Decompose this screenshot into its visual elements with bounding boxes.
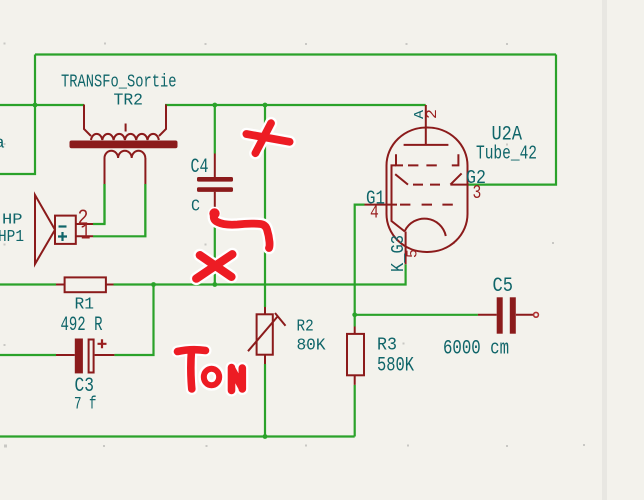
svg-text:1: 1 — [81, 220, 91, 246]
svg-text:C5: C5 — [493, 275, 514, 298]
wire C3 left feed — [0, 354, 56, 356]
svg-text:R2: R2 — [297, 318, 314, 337]
tube U2A grid G1 row and pin lead — [365, 204, 453, 206]
tube U2A G3-cathode internal tie — [392, 165, 405, 231]
resistor R1 leads — [56, 284, 114, 286]
svg-text:TR2: TR2 — [114, 92, 144, 111]
speaker HP1 plus mark — [58, 232, 67, 241]
junction node R1 / C3 riser — [151, 282, 156, 287]
svg-text:492 R: 492 R — [61, 314, 103, 337]
svg-text:6000 cm: 6000 cm — [443, 338, 509, 361]
annotation white halos — [178, 123, 290, 390]
wire transformer secondary right leg — [144, 184, 146, 236]
wire speaker pin2 to secondary left leg — [93, 184, 105, 224]
wire C5 feed y315 — [355, 314, 478, 316]
transformer TR2 secondary winding — [105, 151, 146, 158]
svg-text:C: C — [191, 197, 200, 216]
svg-text:3: 3 — [473, 182, 482, 204]
wire HT top rail — [35, 53, 556, 55]
wire G1 to R3 — [355, 205, 365, 327]
speaker HP1 pin 1 lead — [76, 235, 93, 237]
svg-text:R1: R1 — [75, 296, 95, 315]
potentiometer R2 leads — [264, 307, 266, 364]
annotation handwritten TON — [178, 350, 243, 391]
svg-text:7 f: 7 f — [74, 394, 97, 414]
svg-text:2: 2 — [424, 109, 441, 119]
capacitor C3 polarity plus — [98, 339, 107, 348]
wire C3 right riser — [114, 285, 153, 356]
wire R3 bottom drop — [354, 385, 356, 437]
wire G2 feedback loop — [468, 55, 557, 185]
tube U2A grid G2 row and pin lead — [395, 173, 467, 184]
transformer TR2 primary right pin — [159, 105, 166, 137]
wire R2 drop x265 — [264, 105, 266, 307]
svg-text:a: a — [0, 135, 5, 154]
potentiometer R2 wiper arrow — [248, 313, 286, 351]
capacitor C3 solid plate — [75, 339, 83, 374]
svg-text:580K: 580K — [377, 355, 414, 378]
transformer TR2 center tap stub — [125, 124, 127, 132]
speaker HP1 body box — [55, 216, 76, 244]
capacitor C4 leads — [214, 154, 216, 214]
svg-text:C4: C4 — [191, 156, 209, 179]
transformer TR2 secondary left lead — [104, 158, 106, 184]
speaker HP1 cone — [35, 195, 55, 264]
speaker HP1 pin 2 lead — [76, 223, 93, 225]
junction node R2 / bottom rail — [263, 434, 268, 439]
wire speaker pin1 to secondary right leg — [93, 184, 145, 236]
svg-text:HP1: HP1 — [0, 228, 24, 247]
annotation squiggle start blob — [209, 208, 219, 218]
wire left riser x35 — [0, 55, 35, 175]
transformer TR2 primary winding — [91, 134, 159, 140]
annotation squiggle over C4 — [214, 213, 270, 248]
tube U2A cathode dome — [405, 219, 446, 236]
capacitor C3 leads — [56, 354, 114, 356]
unconnected pin circle of C5 — [534, 312, 539, 317]
junction node C4 top / plate rail — [212, 103, 217, 108]
wire R2 bottom drop — [264, 364, 266, 437]
svg-text:TRANSFo_Sortie: TRANSFo_Sortie — [61, 73, 177, 93]
wire C4 top drop — [214, 105, 216, 154]
transformer TR2 primary left pin — [84, 105, 91, 137]
capacitor C3 hollow plate — [89, 340, 94, 373]
tube U2A anode plate and lead — [404, 105, 449, 145]
junction node left riser / primary feed — [33, 103, 38, 108]
junction node C5 tap on G1-R3 wire — [352, 312, 357, 317]
annotation X cross lower — [196, 254, 232, 278]
tube U2A grid G3 row — [396, 154, 458, 165]
capacitor C5 left plate — [497, 297, 503, 333]
transformer TR2 secondary right lead — [144, 158, 146, 184]
resistor R3 body — [347, 334, 364, 375]
wire left feed to transformer primary pin — [0, 104, 84, 106]
tube U2A cathode lead — [405, 232, 407, 265]
wire cathode bus y284.5 — [0, 264, 406, 284]
capacitor C4 bottom plate — [197, 187, 233, 192]
svg-text:R3: R3 — [377, 336, 397, 356]
capacitor C5 leads — [478, 314, 533, 316]
transformer TR2 core bar — [70, 141, 178, 149]
junction node R2 / plate rail — [263, 103, 268, 108]
potentiometer R2 body — [257, 314, 273, 354]
svg-text:HP: HP — [2, 212, 23, 229]
tube U2A envelope — [387, 128, 468, 253]
annotation X cross upper — [246, 123, 289, 153]
resistor R3 leads — [354, 327, 356, 385]
svg-text:Tube_42: Tube_42 — [476, 143, 537, 165]
wire plate rail y105 — [165, 104, 426, 106]
svg-text:4: 4 — [370, 204, 379, 224]
wire bottom rail y436 — [0, 435, 355, 437]
speaker HP1 minus mark — [59, 225, 67, 227]
junction node C4 / cathode bus — [212, 282, 217, 287]
wire C4 bottom drop — [214, 213, 216, 285]
wire transformer secondary left leg — [103, 184, 105, 224]
capacitor C5 right plate — [510, 297, 516, 333]
svg-text:5: 5 — [405, 249, 422, 258]
resistor R1 body — [65, 277, 106, 292]
capacitor C4 top plate — [197, 177, 233, 182]
svg-text:80K: 80K — [297, 336, 327, 355]
